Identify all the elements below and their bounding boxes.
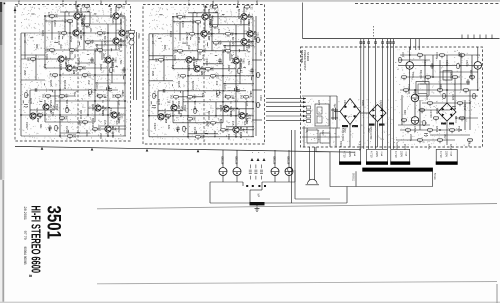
svg-text:0.22: 0.22	[215, 74, 218, 79]
svg-text:4k7: 4k7	[195, 13, 199, 18]
signal arrow	[303, 110, 306, 112]
relay box	[443, 71, 452, 80]
svg-text:4 710: 4 710	[394, 151, 398, 158]
svg-text:2M2: 2M2	[151, 71, 155, 77]
transistor Q3	[201, 31, 207, 37]
signal wire 1	[266, 98, 306, 100]
svg-text:3501: 3501	[43, 206, 64, 240]
wire	[430, 134, 470, 136]
border arrows	[76, 4, 111, 7]
svg-text:6k8: 6k8	[230, 55, 234, 60]
electrolytic C5	[236, 89, 240, 92]
bus tick	[479, 35, 481, 39]
svg-text:220p: 220p	[99, 133, 103, 140]
svg-text:B40: B40	[403, 110, 407, 115]
connector tick	[393, 42, 395, 44]
wire	[409, 69, 411, 90]
wire lamp 2	[314, 147, 316, 180]
left channel amplifier block border	[15, 5, 131, 142]
svg-text:100n: 100n	[207, 121, 210, 127]
main supply black bar	[362, 168, 433, 172]
transistor Q5	[113, 38, 119, 44]
svg-text:1k2: 1k2	[170, 95, 173, 100]
resistor PR20	[401, 119, 406, 123]
svg-text:C222: C222	[153, 123, 157, 130]
resistor R1	[212, 6, 217, 10]
svg-text:B80 C: B80 C	[454, 116, 458, 123]
wire mains link	[295, 198, 330, 200]
svg-text:100n: 100n	[45, 54, 49, 61]
svg-text:C203: C203	[53, 20, 57, 27]
wire	[149, 115, 254, 117]
resistor R7	[189, 33, 194, 37]
bus arrows	[41, 147, 200, 152]
svg-text:2M2: 2M2	[23, 70, 27, 76]
wire	[149, 33, 254, 35]
resistor PR13	[427, 129, 432, 133]
scan speck top-left	[4, 3, 6, 5]
wire lamp 1	[309, 147, 311, 180]
power transistor T6	[474, 62, 482, 70]
wire	[398, 64, 406, 66]
capacitor C1	[48, 125, 51, 131]
capacitor C6	[35, 88, 37, 91]
svg-text:1k2: 1k2	[175, 13, 179, 18]
transistor Q12	[111, 112, 117, 118]
svg-text:BD130: BD130	[234, 157, 237, 165]
wire	[152, 34, 154, 60]
wire	[226, 129, 254, 131]
transistor Q13	[233, 127, 239, 133]
svg-text:0.5A: 0.5A	[427, 144, 431, 150]
svg-text:T501: T501	[411, 72, 415, 78]
svg-text:R250: R250	[259, 50, 262, 56]
resistor PR1	[417, 54, 422, 58]
wire	[329, 96, 331, 147]
wire	[215, 102, 217, 116]
border arrows	[204, 5, 239, 8]
resistor R20	[225, 96, 230, 100]
svg-text:33k: 33k	[39, 124, 43, 129]
bus tick	[485, 35, 487, 39]
wire output stem	[274, 150, 276, 168]
resistor R11	[97, 49, 102, 53]
wire	[45, 49, 118, 51]
resistor PR2	[439, 54, 444, 58]
wire output emitter	[222, 175, 224, 182]
wire	[60, 132, 90, 134]
svg-text:TCA 700: TCA 700	[407, 84, 411, 95]
svg-text:220: 220	[256, 32, 259, 37]
wire	[182, 91, 184, 111]
svg-text:TA8210: TA8210	[74, 1, 77, 10]
svg-text:560: 560	[54, 14, 57, 19]
wire	[64, 12, 66, 33]
wire frame drop	[346, 187, 348, 204]
wire	[424, 55, 426, 84]
wire	[124, 16, 126, 136]
svg-text:4 710: 4 710	[439, 151, 443, 158]
junction squares under caps	[246, 185, 266, 187]
resistor R13	[180, 75, 185, 79]
transistor Q4	[119, 30, 125, 36]
svg-text:100n: 100n	[75, 67, 78, 73]
wire	[173, 96, 203, 98]
transformer wire	[387, 39, 389, 149]
svg-text:35V: 35V	[443, 134, 447, 139]
resistor R9	[49, 49, 54, 53]
resistor R12	[77, 67, 82, 71]
resistor PRV5	[443, 93, 447, 98]
wire	[223, 45, 254, 47]
svg-text:BD130: BD130	[220, 157, 223, 165]
wire	[409, 47, 411, 62]
resistor R10	[69, 49, 74, 53]
svg-text:9006A 9006B: 9006A 9006B	[23, 247, 28, 265]
svg-text:R231: R231	[29, 98, 33, 105]
wire	[183, 101, 254, 103]
svg-text:230V: 230V	[348, 151, 352, 157]
resistor R6	[49, 15, 54, 19]
svg-text:R222: R222	[227, 65, 231, 72]
svg-text:BC413B: BC413B	[109, 8, 113, 18]
transistor Q6	[186, 57, 192, 63]
resistor R1	[84, 5, 89, 9]
wire volume bus 2	[136, 32, 138, 100]
svg-text:0.47: 0.47	[245, 101, 249, 107]
input filter components	[307, 106, 311, 123]
resistor R21	[243, 96, 248, 100]
wire	[83, 16, 85, 50]
svg-text:SI 500: SI 500	[395, 142, 399, 150]
svg-text:a: a	[251, 152, 253, 153]
svg-text:100n: 100n	[203, 67, 206, 73]
signal wire 2	[266, 101, 306, 103]
junction dots power block	[409, 54, 479, 131]
dashed drop wire	[373, 26, 375, 39]
resistor R4	[213, 42, 218, 46]
wire	[377, 122, 379, 148]
signal arrow	[303, 115, 306, 117]
wire volume bus	[133, 32, 135, 100]
junction dots	[20, 15, 126, 137]
wire bridge link	[360, 112, 369, 114]
wire	[454, 80, 456, 110]
resistor PR5	[425, 76, 430, 80]
wire to ground bar	[209, 182, 211, 203]
svg-text:2200µ: 2200µ	[409, 134, 413, 142]
left channel internal dashed divider	[77, 5, 79, 142]
svg-text:BD 139: BD 139	[193, 101, 197, 111]
svg-text:56k: 56k	[247, 61, 251, 66]
svg-text:RY1: RY1	[317, 100, 321, 106]
resistor R32	[89, 89, 93, 94]
wire	[158, 90, 246, 92]
wire	[149, 59, 202, 61]
resistor R19	[210, 122, 215, 126]
wire	[45, 121, 95, 123]
transistor Q6	[58, 56, 64, 62]
wire to regulator	[415, 39, 417, 50]
signal wire 5	[266, 115, 306, 117]
resistor R3	[212, 25, 217, 29]
svg-text:0,6A: 0,6A	[353, 152, 356, 157]
smoothing capacitors	[331, 108, 338, 120]
svg-text:1k2: 1k2	[232, 107, 235, 112]
wire	[173, 122, 223, 124]
output transistor T2	[233, 168, 241, 176]
svg-text:1k2: 1k2	[42, 94, 45, 99]
electrolytic C4	[24, 105, 28, 108]
wire	[98, 128, 126, 130]
svg-text:B380 C3200: B380 C3200	[341, 128, 343, 141]
svg-text:4k7: 4k7	[177, 74, 180, 79]
wire	[94, 50, 96, 122]
resistor R14	[210, 75, 215, 79]
wire	[400, 54, 480, 56]
wire	[163, 56, 165, 81]
capacitor C1	[176, 126, 179, 132]
transistor Q4	[247, 31, 253, 37]
separator upper	[97, 204, 497, 209]
svg-text:BC413B: BC413B	[237, 9, 241, 19]
svg-text:56k: 56k	[119, 60, 123, 65]
frame left riser	[329, 152, 331, 171]
wire	[398, 124, 430, 126]
svg-text:BC 327: BC 327	[231, 37, 235, 47]
svg-text:R507: R507	[425, 94, 429, 101]
transformer wire	[382, 39, 384, 149]
connector tick	[387, 42, 389, 44]
svg-text:47k: 47k	[73, 54, 77, 59]
transistor Q11	[95, 105, 101, 111]
wire	[294, 170, 296, 182]
wire ps corner 2	[335, 128, 337, 147]
svg-text:39k: 39k	[107, 86, 111, 91]
wire	[76, 6, 78, 33]
wire	[45, 67, 108, 69]
resistor R2	[116, 5, 121, 9]
resistor PR19	[459, 117, 464, 121]
svg-text:R246: R246	[85, 130, 89, 137]
svg-text:BD 139: BD 139	[65, 100, 69, 110]
wire output stem	[236, 150, 238, 168]
wire	[44, 16, 46, 68]
wire	[217, 13, 219, 25]
wire	[95, 82, 126, 84]
svg-text:2µ2: 2µ2	[225, 128, 228, 133]
svg-text:8µ2: 8µ2	[73, 92, 77, 97]
power transistor T8	[411, 117, 419, 125]
svg-text:BD130: BD130	[272, 157, 275, 165]
electrolytic PC4	[452, 107, 456, 110]
wire ground bus	[210, 202, 347, 204]
wire	[21, 58, 74, 60]
transistor Q9	[171, 105, 177, 111]
resistor RE2	[257, 72, 261, 77]
svg-text:47k: 47k	[201, 55, 205, 60]
wire relay top	[302, 95, 337, 97]
resistor R30	[25, 92, 29, 97]
resistor R15	[173, 96, 178, 100]
resistor R31	[194, 108, 198, 113]
wire	[414, 64, 474, 66]
resistor R6	[177, 16, 182, 20]
wire	[60, 11, 90, 13]
resistor PR10	[427, 102, 432, 106]
connector tick	[363, 42, 365, 44]
wire	[84, 23, 120, 25]
resistor PR3	[459, 54, 464, 58]
transistor Q1	[74, 13, 80, 19]
svg-text:47µ: 47µ	[34, 113, 37, 118]
output transistor T3	[271, 168, 279, 176]
speaker ground bar	[250, 202, 265, 205]
svg-text:0.47: 0.47	[117, 100, 121, 106]
wire	[75, 62, 95, 64]
resistor R9	[177, 50, 182, 54]
wire	[460, 55, 462, 90]
wire	[188, 12, 218, 14]
right channel amplifier circuit (mirror copy)	[147, 5, 259, 141]
signal arrow	[303, 105, 306, 107]
wire to regulator	[409, 39, 411, 50]
wire	[422, 102, 470, 104]
wire	[88, 107, 126, 109]
wire	[430, 95, 478, 97]
resistor R18	[187, 118, 192, 122]
resistor R21	[115, 95, 120, 99]
resistor R33	[110, 67, 114, 72]
resistor R32	[217, 90, 221, 95]
wire	[107, 24, 109, 136]
wire	[30, 89, 118, 91]
connector arrow	[257, 158, 260, 161]
wire	[35, 55, 37, 80]
power transistor T7	[411, 94, 419, 102]
svg-text:C213: C213	[95, 82, 99, 89]
svg-text:0.22: 0.22	[121, 4, 124, 9]
svg-text:R-CH: R-CH	[61, 0, 64, 6]
svg-text:R246: R246	[213, 131, 217, 138]
svg-text:c: c	[263, 152, 265, 153]
transistor Q7	[194, 66, 200, 72]
svg-text:0,6A: 0,6A	[404, 152, 407, 157]
signal arrow	[303, 101, 306, 103]
wire	[243, 7, 245, 51]
resistor R24	[92, 128, 97, 132]
svg-text:560: 560	[114, 59, 117, 64]
wire stubs	[23, 11, 123, 132]
wire frame divider	[355, 171, 357, 186]
signal wire 4	[266, 110, 306, 112]
wire ps corner	[303, 126, 305, 147]
pilot lamp	[306, 179, 320, 185]
resistor R19	[82, 121, 87, 125]
svg-text:4k7: 4k7	[81, 4, 84, 9]
bridge rectifier BR1	[340, 99, 360, 125]
resistor R34	[183, 126, 187, 131]
resistor PR22	[467, 139, 472, 143]
resistor PRV2	[457, 63, 461, 68]
resistor PR15	[417, 139, 422, 143]
svg-text:50 mA: 50 mA	[433, 173, 436, 180]
svg-text:C517: C517	[467, 141, 471, 148]
svg-text:4 710: 4 710	[343, 151, 347, 158]
wire	[51, 21, 53, 40]
wire	[250, 189, 262, 191]
output transistor T1	[219, 168, 227, 176]
transformer wire	[368, 39, 370, 149]
wire	[95, 44, 126, 46]
svg-text:R517: R517	[449, 144, 453, 151]
wire	[149, 80, 173, 82]
svg-text:4k7: 4k7	[242, 128, 245, 133]
svg-text:C203: C203	[181, 21, 185, 28]
relay contact block	[315, 104, 329, 126]
wire	[188, 133, 218, 135]
transistor Q3	[73, 30, 79, 36]
wire	[252, 89, 262, 91]
wire	[21, 114, 126, 116]
right channel amplifier block border	[143, 5, 265, 145]
svg-text:3n9: 3n9	[187, 45, 191, 50]
wire mains	[291, 130, 293, 203]
svg-text:47µ: 47µ	[180, 106, 183, 111]
wire	[242, 182, 244, 186]
wire	[396, 139, 455, 141]
wire	[173, 50, 246, 52]
svg-text:MP: MP	[257, 194, 260, 198]
scan edge: left dark strip	[0, 2, 2, 180]
wire from top edge	[302, 3, 304, 39]
bridge rectifier BR2	[369, 105, 386, 122]
capacitor PC2	[466, 79, 469, 85]
scan edge: bottom gray line	[0, 302, 500, 303]
svg-text:6k8: 6k8	[102, 54, 106, 59]
transistor Q2	[113, 13, 119, 19]
wire	[336, 96, 338, 128]
wire	[477, 69, 479, 90]
wire	[405, 76, 460, 78]
svg-text:T208: T208	[183, 105, 187, 112]
wire	[98, 125, 126, 127]
svg-text:680: 680	[163, 45, 167, 50]
resistor PR12	[405, 129, 410, 133]
regulator IC box	[416, 82, 429, 96]
wire	[414, 90, 416, 94]
terminal block TB4	[436, 149, 457, 162]
wire	[223, 83, 254, 85]
svg-text:1n5: 1n5	[27, 57, 30, 62]
resistor R18	[59, 117, 64, 121]
svg-text:560: 560	[192, 117, 195, 122]
svg-text:100n: 100n	[173, 55, 177, 62]
resistor PR11	[457, 102, 462, 106]
svg-text:560: 560	[182, 15, 185, 20]
resistor R24	[220, 129, 225, 133]
svg-text:4k7: 4k7	[49, 73, 52, 78]
balance potentiometer cluster	[129, 31, 135, 46]
svg-text:4k7: 4k7	[83, 15, 86, 20]
wire	[60, 74, 126, 76]
capacitor C2	[218, 58, 221, 64]
capacitor C6	[163, 89, 165, 92]
svg-text:4k7: 4k7	[67, 12, 71, 17]
scan noise	[147, 7, 256, 141]
wire output bus right	[262, 181, 295, 183]
resistor R12	[205, 68, 210, 72]
